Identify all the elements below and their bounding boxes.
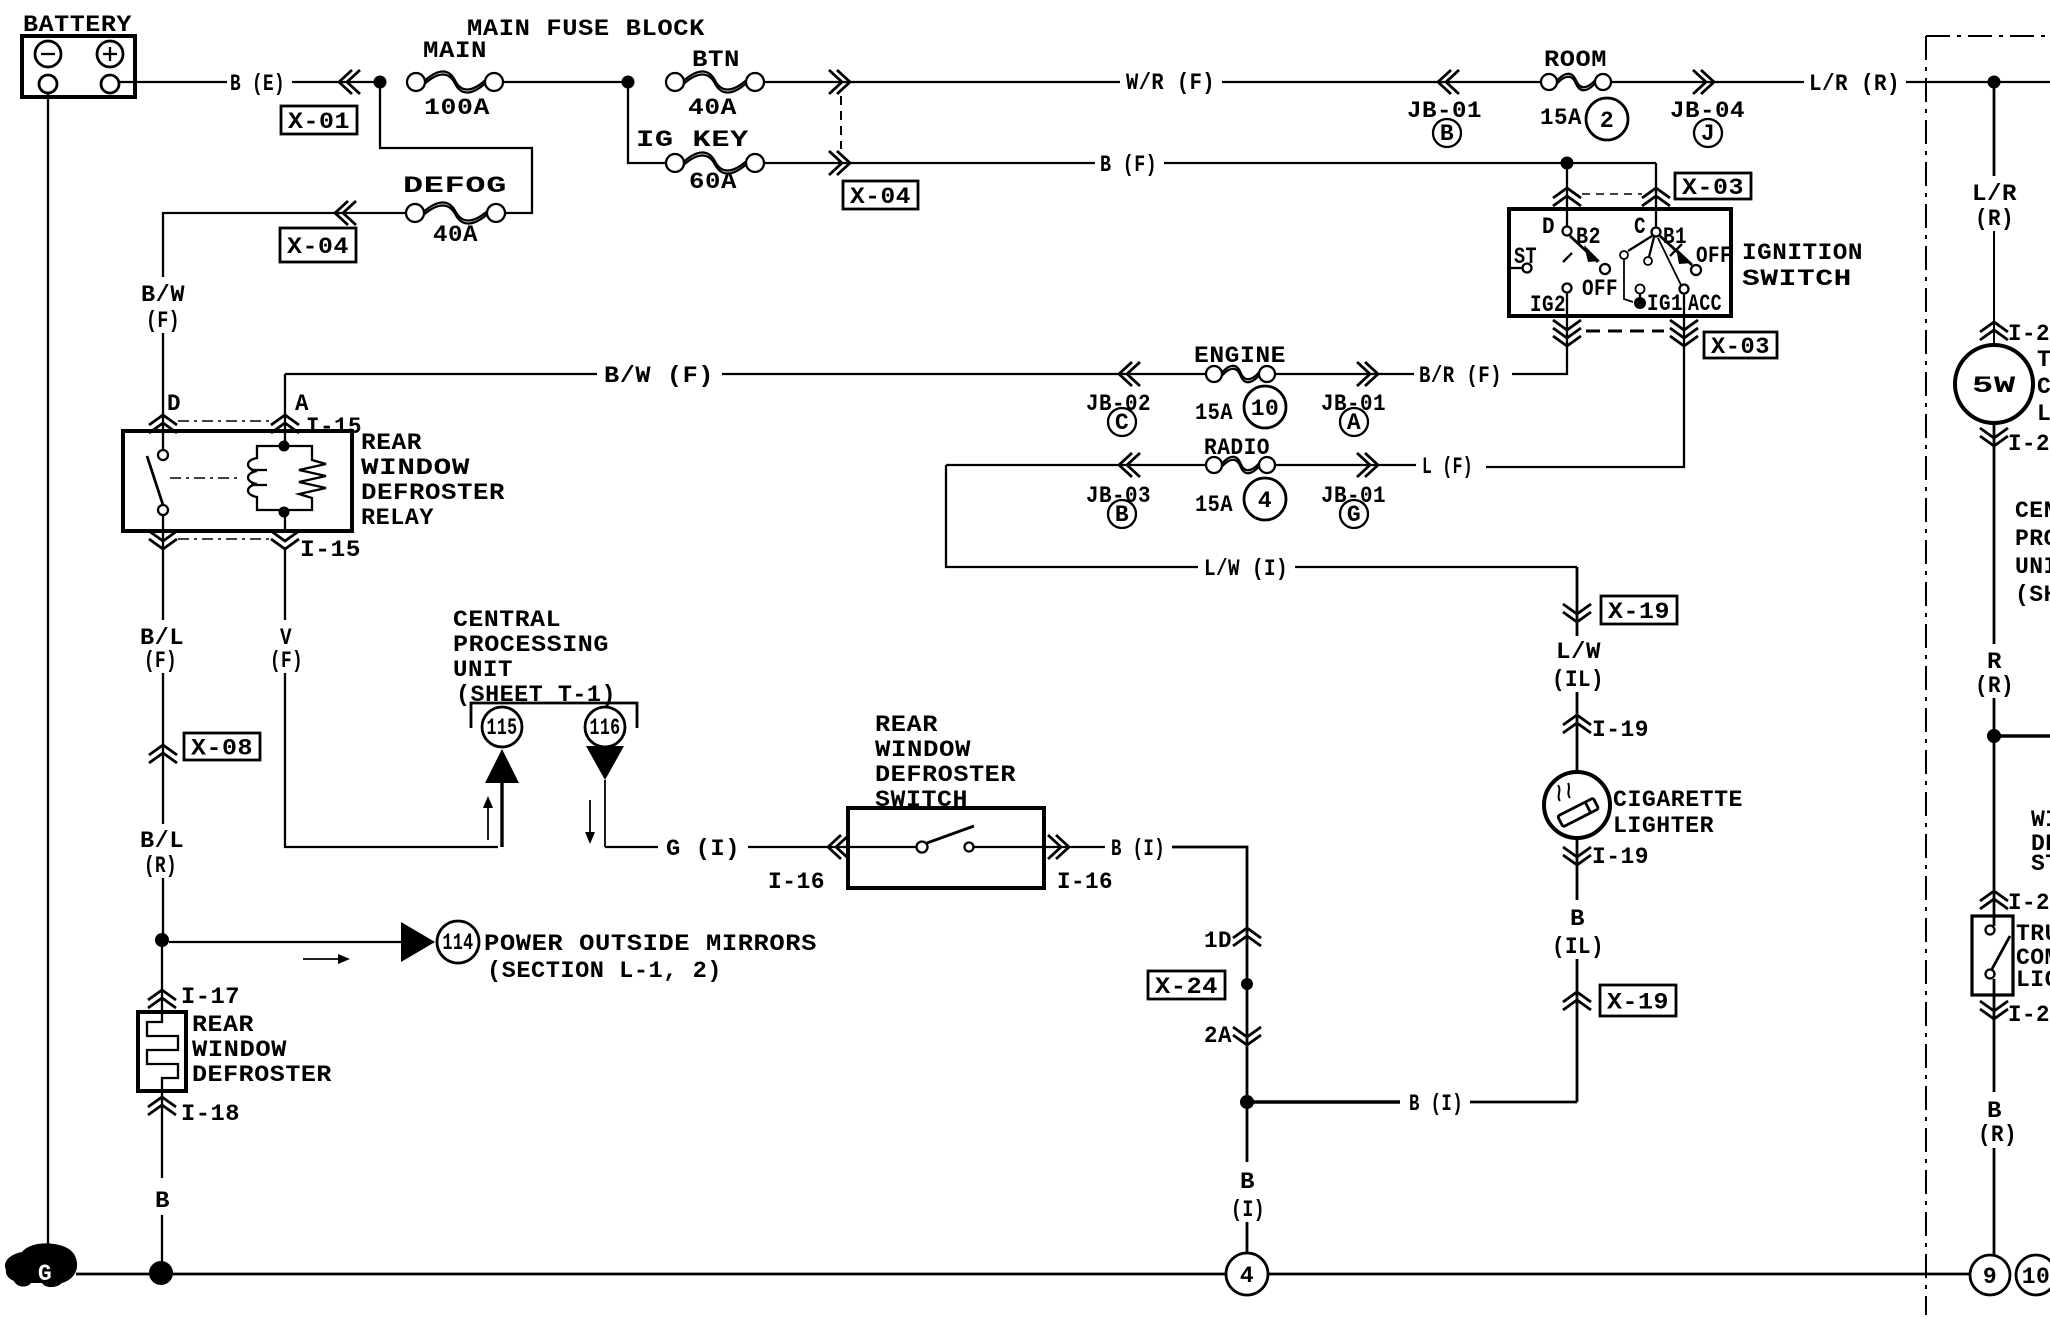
svg-text:L (F): L (F) — [1422, 454, 1473, 480]
svg-text:60A: 60A — [689, 169, 737, 195]
bulb side label stubs — [2037, 347, 2050, 427]
ignition terminal D — [1542, 209, 1601, 250]
ignition switch box — [1509, 209, 1731, 316]
wire RADIO to L (F) — [1275, 464, 1416, 466]
wire B (I) to circle 4 — [1231, 1102, 1265, 1253]
relay switch — [147, 431, 168, 531]
node relay coil top — [279, 441, 290, 452]
svg-text:B: B — [1570, 906, 1585, 932]
svg-text:B: B — [1240, 1169, 1255, 1195]
svg-text:ST: ST — [2031, 851, 2050, 877]
connector I-2x chevron above trunk — [1980, 891, 2008, 909]
svg-text:(IL): (IL) — [1552, 934, 1604, 960]
connector JB-04 chevron — [1693, 70, 1714, 94]
connector JB-01 label B — [1407, 98, 1482, 147]
svg-text:R: R — [1987, 649, 2002, 675]
wire B (E) — [119, 71, 380, 97]
connector X-08 label — [184, 733, 260, 760]
svg-text:IG KEY: IG KEY — [636, 127, 749, 153]
svg-text:X-24: X-24 — [1155, 974, 1218, 1000]
fuse ENGINE 15A — [1194, 343, 1286, 426]
cpu bracket — [471, 703, 637, 728]
svg-text:B (F): B (F) — [1100, 152, 1157, 178]
wire B to ground bus — [155, 1091, 170, 1262]
svg-text:OFF: OFF — [1582, 276, 1618, 302]
connector I-18 chevron — [148, 1097, 176, 1115]
wire defroster feed — [161, 947, 163, 1012]
svg-text:40A: 40A — [433, 222, 478, 248]
svg-text:I-15: I-15 — [300, 537, 361, 563]
connector JB-03 label B — [1086, 483, 1151, 528]
svg-text:I-19: I-19 — [1592, 717, 1649, 743]
connector JB-02 label C — [1086, 391, 1151, 436]
ignition terminal C — [1634, 209, 1687, 250]
connector X-24 pin 1D chevron — [1233, 928, 1261, 946]
connector X-04 chevron (defog) — [335, 201, 356, 225]
power outside mirrors label — [484, 931, 817, 984]
svg-text:L/R: L/R — [1972, 181, 2017, 207]
svg-text:X-03: X-03 — [1711, 334, 1770, 360]
connector X-19 label top — [1601, 596, 1677, 624]
trunk compartment light switch box — [1972, 916, 2013, 995]
arrow out of cpu 116 — [586, 746, 624, 847]
connector X-04 label (defog) — [280, 228, 356, 262]
connector JB-04 label J — [1670, 98, 1745, 147]
fuse ROOM 15A — [1540, 47, 1611, 131]
connector X-08 chevron — [149, 745, 177, 763]
defroster switch contacts — [848, 826, 1044, 853]
wire IG KEY to B (F) label — [764, 162, 1095, 164]
svg-text:WINDOW: WINDOW — [875, 737, 971, 763]
ignition left lever B2-OFF — [1563, 236, 1618, 302]
wire L/W (I) — [1204, 556, 1577, 582]
connector X-19 chevron top — [1563, 604, 1591, 622]
svg-text:ROOM: ROOM — [1544, 47, 1607, 73]
node ground bus junction — [149, 1261, 173, 1285]
node B (I) junction — [1240, 1095, 1254, 1109]
svg-text:B: B — [155, 1188, 170, 1214]
wire B (R) — [1978, 1098, 2017, 1255]
circle 10 ground point — [2016, 1255, 2050, 1295]
ignition right cluster contacts — [1620, 236, 1654, 302]
svg-text:REAR: REAR — [192, 1012, 254, 1038]
connector I-16 chevron right — [1048, 835, 1069, 859]
connector I-2x chevron below trunk — [1980, 1001, 2008, 1019]
arrow current up — [483, 796, 493, 840]
cigarette lighter — [1544, 772, 1610, 838]
connector X-04 label — [843, 181, 918, 209]
connector X-01 label — [281, 106, 357, 134]
svg-text:G (I): G (I) — [666, 836, 740, 862]
wire W/R (F) — [1126, 70, 1541, 96]
connector JB-02 chevron — [1119, 362, 1140, 386]
relay coil and resistor — [248, 431, 326, 531]
ignition terminal IG2 — [1530, 284, 1572, 319]
svg-text:2: 2 — [1600, 108, 1614, 134]
connector I-17 chevron — [148, 990, 176, 1008]
svg-text:ACC: ACC — [1688, 291, 1722, 317]
ignition right lever B1-OFF — [1660, 236, 1732, 275]
svg-text:I-19: I-19 — [1592, 844, 1649, 870]
connector JB-01 chevron (room) — [1438, 70, 1459, 94]
wire battery negative to ground — [47, 93, 49, 1252]
svg-text:PROCESSING: PROCESSING — [453, 632, 609, 658]
fuse IG KEY 60A — [636, 127, 764, 195]
svg-text:X-19: X-19 — [1607, 990, 1669, 1016]
svg-text:DEFROSTER: DEFROSTER — [192, 1062, 332, 1088]
svg-text:B: B — [1987, 1098, 2002, 1124]
svg-text:X-04: X-04 — [287, 234, 349, 260]
wire L/W (IL) drop — [1576, 567, 1579, 636]
svg-text:IGNITION: IGNITION — [1742, 240, 1863, 266]
connector X-03 label bottom — [1704, 332, 1777, 358]
connector I-15 chevrons top — [149, 415, 177, 433]
rear window defroster box — [138, 1012, 186, 1091]
svg-text:TA: TA — [2037, 347, 2050, 373]
svg-text:D: D — [167, 391, 181, 417]
circle 114 — [437, 921, 479, 963]
cigarette lighter title — [1613, 787, 1743, 839]
node BTN/IG KEY junction — [622, 76, 635, 89]
relay title — [361, 430, 505, 531]
svg-text:L/W (I): L/W (I) — [1204, 556, 1288, 582]
svg-text:UNIT: UNIT — [453, 657, 513, 683]
svg-text:B1: B1 — [1663, 224, 1687, 250]
rear window defroster switch title — [875, 712, 1016, 813]
wire relay A riser — [284, 374, 286, 431]
node main fuse junction — [374, 76, 387, 89]
svg-text:(IL): (IL) — [1552, 667, 1604, 693]
fuse number 2 — [1586, 98, 1628, 140]
rear window defroster title — [192, 1012, 332, 1088]
fuse number 4 — [1244, 478, 1286, 520]
svg-text:I-16: I-16 — [768, 869, 825, 895]
svg-text:I-18: I-18 — [181, 1101, 240, 1127]
svg-text:I-16: I-16 — [1057, 869, 1113, 895]
svg-text:POWER OUTSIDE MIRRORS: POWER OUTSIDE MIRRORS — [484, 931, 817, 957]
arrow direction (mirrors) — [303, 954, 350, 964]
ground bus wire — [76, 1273, 1970, 1276]
wire BTN to W/R label — [764, 81, 1120, 83]
svg-text:I-21: I-21 — [2008, 431, 2050, 457]
connector JB-01 chevron (radio) — [1357, 453, 1378, 477]
circle 9 ground point — [1970, 1255, 2010, 1295]
svg-text:B/R (F): B/R (F) — [1419, 363, 1502, 389]
ignition terminal ST — [1509, 244, 1537, 273]
connector X-19 chevron bottom — [1563, 992, 1591, 1010]
svg-text:SWITCH: SWITCH — [1742, 266, 1852, 292]
svg-text:5W: 5W — [1972, 373, 2016, 399]
svg-text:B (I): B (I) — [1409, 1091, 1463, 1117]
wire IG2 to B/R (F) — [1512, 316, 1567, 374]
connector X-03 chevrons bottom — [1553, 320, 1581, 346]
svg-text:(R): (R) — [1978, 1122, 2017, 1148]
node IG1 dot — [1634, 297, 1646, 309]
cpu title — [453, 607, 616, 708]
connector I-21 chevron bottom — [1980, 428, 2008, 446]
wire ACC to L (F) — [1486, 316, 1684, 467]
svg-text:I-2: I-2 — [2008, 1002, 2050, 1028]
connector I-15 chevrons bottom — [149, 531, 177, 549]
arrow current down — [585, 800, 595, 844]
svg-text:15A: 15A — [1540, 105, 1582, 131]
rear window defroster element — [147, 1012, 178, 1091]
svg-text:IG1: IG1 — [1647, 291, 1683, 317]
rear window defroster relay box — [123, 431, 352, 531]
svg-text:(R): (R) — [1975, 206, 2014, 232]
svg-text:ENGINE: ENGINE — [1194, 343, 1286, 369]
svg-text:B: B — [1115, 502, 1129, 528]
svg-text:100A: 100A — [424, 95, 490, 121]
ignition switch title — [1742, 240, 1863, 292]
svg-text:(SH: (SH — [2015, 582, 2050, 608]
rear window defroster switch box — [848, 808, 1044, 888]
svg-text:I-2: I-2 — [2008, 890, 2050, 916]
fuse RADIO 15A — [1195, 435, 1275, 518]
connector X-03 label top — [1675, 173, 1751, 199]
wire R (R) — [1975, 423, 2014, 1092]
svg-text:REAR: REAR — [875, 712, 938, 738]
wire B (F) — [1100, 152, 1656, 178]
wire to mirrors — [169, 941, 401, 943]
svg-text:B: B — [1440, 121, 1454, 147]
connector X-19 label bottom — [1600, 985, 1676, 1016]
connector X-03 chevrons top — [1553, 188, 1581, 206]
svg-text:X-19: X-19 — [1608, 599, 1670, 625]
bulb 5W — [1955, 345, 2033, 423]
svg-text:I-17: I-17 — [181, 984, 240, 1010]
svg-text:IG2: IG2 — [1530, 292, 1566, 318]
circle 116 — [585, 707, 625, 747]
wire G (I) — [605, 836, 848, 862]
node L/R junction — [1988, 76, 2001, 89]
arrow to power outside mirrors — [401, 922, 435, 962]
wire B (IL) — [1552, 838, 1604, 1102]
svg-text:WINDOW: WINDOW — [192, 1037, 287, 1063]
svg-text:CENTRAL: CENTRAL — [453, 607, 561, 633]
wire B (I) — [1044, 836, 1247, 1102]
connector X-24 pin 2A chevron — [1233, 1027, 1261, 1045]
battery — [22, 12, 135, 97]
connector I-21 chevron top — [1980, 322, 2008, 340]
svg-text:WINDOW: WINDOW — [361, 455, 470, 481]
svg-text:RELAY: RELAY — [361, 505, 434, 531]
svg-text:J: J — [1701, 121, 1715, 147]
svg-text:9: 9 — [1983, 1264, 1997, 1290]
fuse BTN 40A — [666, 47, 764, 121]
wire ignition C feed — [1655, 163, 1657, 209]
connector I-19 chevron bottom — [1563, 847, 1591, 865]
svg-text:(R): (R) — [144, 853, 177, 879]
svg-text:115: 115 — [487, 715, 518, 741]
svg-text:DEFROSTER: DEFROSTER — [361, 480, 505, 506]
wire B (I) branch right — [1252, 1091, 1577, 1117]
svg-text:4: 4 — [1258, 488, 1272, 514]
fuse number 10 — [1244, 386, 1286, 428]
svg-text:CO: CO — [2037, 374, 2050, 400]
svg-text:B/L: B/L — [140, 828, 184, 854]
svg-text:LI: LI — [2037, 401, 2050, 427]
svg-text:MAIN: MAIN — [423, 38, 487, 64]
wire MAIN to BTN junction — [503, 81, 628, 83]
svg-text:10: 10 — [2022, 1264, 2050, 1290]
svg-text:SWITCH: SWITCH — [875, 787, 968, 813]
svg-text:(SECTION L-1, 2): (SECTION L-1, 2) — [487, 958, 722, 984]
svg-text:DEFOG: DEFOG — [403, 173, 507, 199]
svg-text:X-03: X-03 — [1682, 175, 1744, 201]
svg-text:ST: ST — [1514, 244, 1537, 270]
wire B/L (F) — [140, 531, 184, 824]
connector X-01 chevron — [339, 70, 360, 94]
svg-text:OFF: OFF — [1696, 243, 1732, 269]
svg-text:L/R (R): L/R (R) — [1809, 71, 1900, 97]
svg-text:15A: 15A — [1195, 400, 1233, 426]
wire B/W (F) — [285, 363, 1206, 389]
svg-text:(I): (I) — [1231, 1197, 1265, 1223]
fuse DEFOG 40A — [403, 173, 507, 248]
svg-text:D: D — [1542, 214, 1555, 240]
wire MAIN junction to DEFOG — [380, 82, 532, 213]
wire L/W (IL) labels — [1552, 639, 1604, 772]
svg-text:UNI: UNI — [2015, 554, 2050, 580]
svg-text:G: G — [38, 1261, 52, 1287]
connector JB-01 label A — [1321, 391, 1386, 436]
svg-text:B/W: B/W — [141, 282, 185, 308]
svg-text:X-04: X-04 — [850, 184, 911, 210]
wire V (F) — [270, 549, 498, 847]
wire B/W (F) vertical — [141, 282, 185, 431]
node trunk junction — [1987, 729, 2050, 743]
svg-text:CIGARETTE: CIGARETTE — [1613, 787, 1743, 813]
svg-text:REAR: REAR — [361, 430, 422, 456]
connector JB-01 chevron (engine) — [1357, 362, 1378, 386]
node X-24 — [1241, 978, 1253, 990]
connector JB-03 chevron — [1119, 453, 1140, 477]
svg-text:PRO: PRO — [2015, 526, 2050, 552]
wire B/L (R) — [140, 828, 184, 940]
svg-text:(F): (F) — [146, 308, 180, 334]
svg-text:C: C — [1634, 214, 1646, 240]
node B (F) ignition junction — [1561, 157, 1574, 170]
border dash-dot — [1926, 36, 2050, 1315]
relay mechanical link — [170, 477, 240, 479]
svg-text:WI: WI — [2031, 807, 2050, 833]
svg-text:B (E): B (E) — [230, 71, 285, 97]
svg-text:X-08: X-08 — [191, 736, 253, 762]
wire radio row left — [946, 464, 1206, 466]
svg-text:10: 10 — [1251, 396, 1280, 422]
wire L/R (R) — [1809, 71, 2050, 97]
svg-text:15A: 15A — [1195, 492, 1233, 518]
svg-text:C: C — [1115, 410, 1129, 436]
connector I-19 chevron top — [1563, 715, 1591, 733]
connector X-04 chevrons — [829, 70, 850, 94]
svg-text:(R): (R) — [1975, 673, 2014, 699]
svg-text:116: 116 — [590, 715, 621, 741]
svg-text:4: 4 — [1240, 1263, 1254, 1289]
wire DEFOG to B/W drop — [163, 213, 406, 277]
svg-text:40A: 40A — [688, 95, 737, 121]
cpu sheet ref stubs — [2015, 498, 2050, 608]
trunk switch label stubs — [2016, 921, 2050, 993]
wire L/R (R) down — [1972, 82, 2017, 347]
svg-text:1D: 1D — [1204, 928, 1232, 954]
wire junction to IG KEY fuse — [628, 82, 666, 163]
svg-text:L/W: L/W — [1556, 639, 1601, 665]
connector JB-01 label G — [1321, 483, 1386, 528]
fuse MAIN 100A — [407, 38, 503, 121]
svg-text:DEFROSTER: DEFROSTER — [875, 762, 1016, 788]
ground symbol G — [5, 1243, 77, 1287]
svg-text:MAIN FUSE BLOCK: MAIN FUSE BLOCK — [467, 16, 705, 42]
svg-text:CEN: CEN — [2015, 498, 2050, 524]
svg-text:114: 114 — [443, 930, 474, 956]
svg-text:2A: 2A — [1204, 1023, 1232, 1049]
svg-text:G: G — [1347, 502, 1361, 528]
side note stubs — [2031, 807, 2050, 877]
svg-text:X-01: X-01 — [288, 109, 350, 135]
node relay coil bottom — [279, 507, 290, 518]
connector I-16 chevron left — [828, 835, 849, 859]
svg-text:LIGHTER: LIGHTER — [1613, 813, 1714, 839]
svg-text:A: A — [1347, 410, 1361, 436]
node mirror junction — [155, 933, 169, 947]
wire ignition D feed — [1566, 163, 1568, 209]
svg-text:B (I): B (I) — [1111, 836, 1165, 862]
svg-text:LIG: LIG — [2016, 967, 2050, 993]
svg-text:BTN: BTN — [692, 47, 740, 73]
svg-text:TRU: TRU — [2016, 921, 2050, 947]
circle 115 — [482, 707, 522, 747]
svg-text:(F): (F) — [270, 648, 303, 674]
svg-text:(F): (F) — [144, 648, 177, 674]
connector X-24 label — [1148, 971, 1225, 999]
ignition lever to ACC — [1658, 238, 1689, 316]
arrow into cpu 115 — [485, 749, 519, 847]
wire ROOM to JB-04 — [1611, 81, 1804, 83]
wire radio feed branch — [946, 465, 1198, 567]
svg-text:B/W (F): B/W (F) — [604, 363, 714, 389]
svg-text:I-21: I-21 — [2008, 321, 2050, 347]
circle 4 ground point — [1226, 1253, 1268, 1295]
svg-text:(SHEET T-1): (SHEET T-1) — [456, 682, 616, 708]
wire ENGINE to B/R (F) — [1275, 373, 1414, 375]
svg-text:W/R (F): W/R (F) — [1126, 70, 1215, 96]
